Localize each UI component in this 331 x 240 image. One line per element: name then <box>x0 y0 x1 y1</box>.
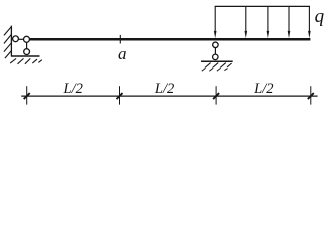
svg-text:q: q <box>315 6 325 27</box>
svg-text:L/2: L/2 <box>63 81 83 97</box>
svg-text:L/2: L/2 <box>154 81 174 97</box>
svg-text:a: a <box>118 44 127 63</box>
svg-text:L/2: L/2 <box>253 81 273 97</box>
